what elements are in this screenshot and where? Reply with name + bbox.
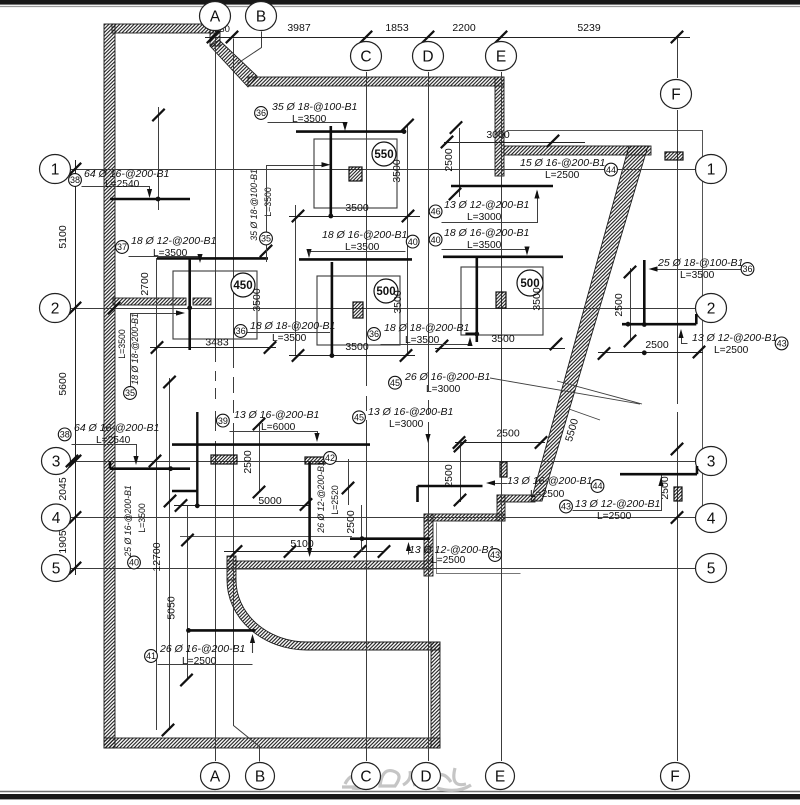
- column on grid F row 1: [665, 152, 683, 160]
- wall curved end cap: [227, 556, 236, 580]
- svg-text:12700: 12700: [151, 542, 163, 571]
- svg-text:25 Ø 18-@100-B1: 25 Ø 18-@100-B1: [657, 257, 743, 269]
- dim 3500 footing C1: [289, 216, 420, 218]
- grid circle 3 left: [42, 448, 71, 475]
- callout 36 top leader: [268, 123, 346, 128]
- dim 3000 near E row1: [444, 142, 585, 144]
- grid circle C top: [351, 42, 382, 71]
- rebar 42 vertical: [308, 462, 311, 552]
- svg-text:L=2540: L=2540: [96, 435, 131, 446]
- tick on grid F near row 3: [671, 443, 683, 455]
- svg-text:18 Ø 18-@200-B1: 18 Ø 18-@200-B1: [250, 320, 335, 332]
- svg-text:L=3500: L=3500: [467, 240, 502, 251]
- svg-text:2500: 2500: [345, 510, 357, 534]
- svg-text:L=3500: L=3500: [263, 187, 273, 217]
- svg-text:L=2500: L=2500: [597, 511, 632, 522]
- rebar 36b vertical footing C2: [331, 262, 334, 357]
- callout 38b leader: [72, 445, 137, 462]
- svg-text:1: 1: [707, 162, 716, 179]
- grid centerline gaps: [214, 362, 216, 371]
- grid line C vertical: [366, 72, 368, 761]
- tick on grid F row 4: [671, 511, 683, 523]
- column on grid F rows 3-4: [674, 487, 682, 501]
- grid circle 3 right: [696, 447, 727, 476]
- callout 35b leader: [131, 314, 182, 387]
- svg-text:L=2500: L=2500: [714, 345, 749, 356]
- wall bottom: [104, 738, 440, 748]
- footing E2 column: [496, 292, 506, 308]
- svg-text:4: 4: [52, 510, 61, 527]
- grid circle A top: [200, 2, 231, 31]
- slab boundary thin line near step wall: [437, 523, 521, 574]
- dim 3500 footing E2: [435, 348, 565, 350]
- svg-text:L=3500: L=3500: [272, 333, 307, 344]
- svg-text:3987: 3987: [287, 22, 311, 34]
- svg-text:2500: 2500: [613, 293, 625, 317]
- rebar 39 horizontal long row3: [172, 443, 370, 446]
- svg-text:L=3500: L=3500: [345, 242, 380, 253]
- grid line 1 horizontal: [70, 169, 696, 171]
- tick grid3 x155: [149, 455, 161, 467]
- svg-text:1905: 1905: [57, 530, 69, 554]
- svg-text:26 Ø 16-@200-B1: 26 Ø 16-@200-B1: [404, 371, 490, 383]
- svg-text:5050: 5050: [166, 596, 178, 620]
- svg-text:35: 35: [261, 234, 271, 244]
- extension line footing dims left: [295, 205, 297, 356]
- svg-text:3000: 3000: [486, 129, 510, 141]
- watermark: [342, 768, 471, 790]
- grid circle 1 left: [40, 155, 71, 184]
- svg-text:F: F: [671, 87, 680, 104]
- tick on curve dim: [260, 245, 272, 257]
- svg-text:C: C: [360, 49, 371, 66]
- grid circle 4 left: [42, 504, 71, 531]
- svg-text:5: 5: [52, 561, 61, 578]
- svg-text:2045: 2045: [57, 477, 69, 501]
- svg-text:L=3000: L=3000: [467, 212, 502, 223]
- svg-text:26 Ø 16-@200-B1: 26 Ø 16-@200-B1: [159, 643, 245, 655]
- rebar 40a horizontal: [299, 258, 412, 261]
- footing E2 outline: [461, 267, 543, 335]
- footing label 500 center: [374, 279, 398, 303]
- svg-text:2500: 2500: [645, 339, 669, 351]
- slab boundary thin line top right: [507, 131, 703, 519]
- footing C1 column: [349, 167, 362, 181]
- svg-text:2500: 2500: [443, 464, 455, 488]
- rebar 38a horizontal row1: [110, 198, 190, 201]
- svg-text:L=3500: L=3500: [137, 503, 147, 533]
- column row 3 mid: [305, 457, 325, 464]
- vertical dim 2500 D-E row1: [459, 128, 461, 197]
- svg-text:39: 39: [218, 416, 228, 426]
- svg-text:3: 3: [52, 454, 61, 471]
- svg-text:2: 2: [707, 301, 716, 318]
- svg-text:B: B: [255, 769, 265, 786]
- callout 39 leader: [230, 432, 318, 439]
- svg-text:L=2500: L=2500: [431, 555, 466, 566]
- svg-text:F: F: [670, 769, 679, 786]
- dim 2500 rows 3 E area: [455, 442, 545, 444]
- page top border bar: [0, 0, 800, 5]
- svg-text:38: 38: [70, 175, 80, 185]
- svg-text:3: 3: [707, 454, 716, 471]
- rebar 40c short horizontal: [172, 490, 197, 493]
- callout 45a: [490, 378, 640, 404]
- grid line A vertical: [215, 31, 217, 761]
- svg-text:44: 44: [592, 481, 602, 491]
- wall left outer: [104, 24, 115, 748]
- wall horizontal E to diagonal: [504, 146, 651, 155]
- rebar 37 horizontal: [157, 257, 268, 260]
- svg-text:13 Ø 16-@200-B1: 13 Ø 16-@200-B1: [368, 406, 453, 418]
- svg-text:L=3500: L=3500: [117, 329, 127, 359]
- svg-text:B: B: [256, 9, 266, 26]
- grid line E vertical: [501, 72, 503, 761]
- callout 44b leader: [489, 483, 507, 485]
- svg-text:5600: 5600: [57, 372, 69, 396]
- svg-text:L=2500: L=2500: [545, 170, 580, 181]
- svg-text:46: 46: [431, 207, 441, 217]
- rebar E rows3-4 horizontal: [418, 485, 483, 488]
- svg-text:18 Ø 18-@200-B1: 18 Ø 18-@200-B1: [130, 313, 140, 385]
- svg-text:L=2540: L=2540: [105, 179, 140, 190]
- grid circle C bottom: [352, 763, 381, 790]
- vertical line x197 rebar: [196, 412, 198, 506]
- svg-text:L=3500: L=3500: [405, 335, 440, 346]
- svg-text:18 Ø 12-@200-B1: 18 Ø 12-@200-B1: [131, 235, 216, 247]
- grid circle 1 right: [696, 155, 727, 184]
- rebar 43a horizontal right: [622, 323, 696, 326]
- grid circle E top: [486, 42, 517, 71]
- svg-text:36: 36: [369, 329, 379, 339]
- wall upper horizontal band B to E: [248, 77, 504, 86]
- wall step vertical at D: [424, 514, 433, 576]
- svg-text:L=2520: L=2520: [330, 485, 340, 515]
- wall corner at grid A: [210, 30, 220, 46]
- svg-text:L=3000: L=3000: [389, 419, 424, 430]
- slab edge thin line left of step: [180, 536, 352, 538]
- svg-text:E: E: [495, 769, 505, 786]
- vertical dim line left-bottom 12700: [169, 378, 171, 730]
- grid circle B bottom: [246, 763, 275, 790]
- left dimension line: [75, 160, 77, 575]
- footing C2 outline: [317, 276, 400, 345]
- rebar 40b horizontal: [443, 255, 563, 258]
- wall step vertical small: [497, 495, 505, 521]
- wall top-left: [112, 24, 220, 33]
- svg-text:3500: 3500: [251, 288, 263, 312]
- svg-text:3500: 3500: [491, 333, 515, 345]
- vertical dim 2700 left: [156, 258, 158, 730]
- svg-text:45: 45: [354, 413, 364, 423]
- svg-text:42: 42: [325, 453, 335, 463]
- svg-text:36: 36: [236, 326, 246, 336]
- vertical dim line 5050: [187, 506, 189, 680]
- svg-text:13 Ø 12-@200-B1: 13 Ø 12-@200-B1: [692, 332, 777, 344]
- grid line 2 horizontal: [70, 308, 696, 310]
- svg-text:38: 38: [60, 430, 70, 440]
- footing B2 outline: [173, 271, 257, 339]
- svg-text:37: 37: [117, 242, 127, 252]
- svg-text:44: 44: [606, 165, 616, 175]
- callout 45b leader: [428, 430, 430, 440]
- svg-text:64 Ø 16-@200-B1: 64 Ø 16-@200-B1: [74, 422, 159, 434]
- svg-text:2500: 2500: [242, 450, 254, 474]
- svg-text:2200: 2200: [452, 22, 476, 34]
- svg-text:C: C: [360, 769, 371, 786]
- rebar 46/44 horizontal right: [451, 185, 553, 188]
- grid circle A bottom: [201, 763, 230, 790]
- svg-text:36: 36: [742, 264, 752, 274]
- svg-text:43: 43: [777, 339, 787, 349]
- callout 37 leader: [129, 257, 201, 260]
- svg-text:1: 1: [51, 162, 60, 179]
- svg-text:A: A: [210, 9, 221, 26]
- svg-text:3500: 3500: [392, 290, 404, 314]
- grid circle 5 right: [696, 554, 727, 583]
- wall interior long band row 5: [227, 561, 433, 569]
- grid circle F bottom: [661, 763, 690, 790]
- svg-text:43: 43: [561, 502, 571, 512]
- rebar 38b horizontal row3 left: [110, 467, 190, 470]
- svg-text:13 Ø 12-@200-B1: 13 Ø 12-@200-B1: [575, 498, 660, 510]
- svg-text:25 Ø 16-@200-B1: 25 Ø 16-@200-B1: [123, 485, 133, 558]
- grid line 5 horizontal: [70, 568, 696, 570]
- grid circle 4 right: [696, 504, 727, 533]
- svg-text:5: 5: [707, 561, 716, 578]
- rebar 44b horizontal rows3-4 right: [620, 473, 697, 476]
- callout 43b leader: [573, 481, 662, 511]
- svg-text:35: 35: [125, 388, 135, 398]
- grid circle 2 left: [40, 294, 71, 323]
- grid circle D bottom: [412, 763, 441, 790]
- svg-text:2700: 2700: [139, 272, 151, 296]
- dim 2500 below grid2 right: [598, 352, 703, 354]
- dim 5000 row 3-4: [174, 505, 310, 507]
- svg-text:18 Ø 16-@200-B1: 18 Ø 16-@200-B1: [444, 227, 529, 239]
- svg-text:35 Ø 18-@100-B1: 35 Ø 18-@100-B1: [249, 169, 259, 241]
- svg-text:15 Ø 16-@200-B1: 15 Ø 16-@200-B1: [520, 157, 605, 169]
- svg-text:A: A: [210, 769, 221, 786]
- grid line B vertical with kinks: [238, 32, 262, 64]
- rebar 41 horizontal bottom: [187, 629, 256, 632]
- callout 36a leader: [247, 332, 330, 334]
- grid line D vertical: [428, 72, 430, 761]
- svg-text:L=2500: L=2500: [530, 489, 565, 500]
- rebar 43c horizontal near D row4-5: [350, 537, 430, 540]
- tick on grid 3 left: [66, 455, 78, 467]
- svg-text:550: 550: [374, 149, 393, 161]
- dim 3483 footing B2: [150, 347, 276, 349]
- wall vertical at grid E rows 0-1: [495, 77, 504, 176]
- svg-text:3483: 3483: [205, 337, 229, 349]
- svg-text:13 Ø 12-@200-B1: 13 Ø 12-@200-B1: [444, 199, 529, 211]
- page bottom border bar: [0, 791, 800, 793]
- callout 36b leader: [381, 341, 471, 345]
- svg-text:L=6000: L=6000: [261, 422, 296, 433]
- svg-text:18 Ø 16-@200-B1: 18 Ø 16-@200-B1: [322, 229, 407, 241]
- svg-text:450: 450: [233, 280, 252, 292]
- vertical dim 2500 E rows3-4: [460, 443, 462, 503]
- grid line F vertical: [677, 37, 679, 78]
- svg-text:L=2500: L=2500: [182, 656, 217, 667]
- wall diagonal right boundary: [531, 146, 648, 501]
- callout 38 top-left leader: [82, 187, 150, 195]
- grid circle F top: [661, 80, 692, 109]
- svg-text:4: 4: [707, 511, 716, 528]
- diagonal wall dim 5500: [557, 381, 642, 404]
- wall bottom-right vertical: [431, 642, 440, 748]
- footing C1 outline: [314, 139, 397, 208]
- svg-text:40: 40: [408, 237, 418, 247]
- svg-text:43: 43: [490, 550, 500, 560]
- rebar 36d vertical right: [643, 260, 646, 325]
- svg-text:40: 40: [129, 558, 139, 568]
- svg-text:45: 45: [390, 378, 400, 388]
- grid circle E bottom: [486, 763, 515, 790]
- svg-text:L=3500: L=3500: [153, 248, 188, 259]
- vertical line x348 rows3-4: [348, 459, 350, 505]
- callout 46 leader: [442, 192, 538, 223]
- svg-text:5000: 5000: [258, 495, 282, 507]
- rebar 35a vertical через footing C1: [329, 126, 332, 218]
- grid line 3 horizontal: [70, 461, 696, 463]
- grid circle B top: [246, 2, 277, 31]
- wall step top near D-E: [497, 495, 535, 502]
- rebar 36a vertical footing B2: [188, 258, 191, 350]
- svg-text:3500: 3500: [391, 159, 403, 183]
- grid circle 5 left: [42, 555, 71, 582]
- top dimension line: [205, 37, 690, 39]
- svg-text:3500: 3500: [345, 202, 369, 214]
- callout 43a leader: [682, 333, 688, 344]
- svg-text:3500: 3500: [345, 341, 369, 353]
- svg-text:L=3000: L=3000: [426, 384, 461, 395]
- column on grid E rows 3-4: [500, 462, 507, 477]
- svg-text:40: 40: [431, 235, 441, 245]
- vertical dim 2500 near D row4: [361, 505, 363, 552]
- wall interior stub row 2 right part: [193, 298, 211, 305]
- svg-text:36: 36: [256, 108, 266, 118]
- column on grid B row 3: [211, 455, 237, 464]
- vertical dim 2500 right of diagonal: [630, 268, 632, 341]
- vertical dim 2500 at B-C row2: [259, 424, 261, 492]
- vertical dim 2500 at F rows3-4: [661, 474, 663, 506]
- footing C2 column: [353, 302, 363, 318]
- footing label 550: [372, 142, 396, 166]
- callout 40b leader: [442, 250, 528, 253]
- grid line 4 horizontal: [70, 517, 696, 519]
- svg-text:2: 2: [51, 301, 60, 318]
- svg-text:5239: 5239: [577, 22, 601, 34]
- callout 36d right leader: [652, 269, 742, 271]
- footing label 500 right: [517, 270, 543, 296]
- svg-text:1853: 1853: [385, 22, 409, 34]
- svg-text:5100: 5100: [57, 225, 69, 249]
- callout 40a leader: [310, 251, 406, 253]
- svg-text:D: D: [420, 769, 431, 786]
- svg-text:41: 41: [146, 651, 156, 661]
- svg-text:35 Ø 18-@100-B1: 35 Ø 18-@100-B1: [272, 101, 357, 113]
- dim 3500 footing C2: [289, 355, 415, 357]
- grid circle 2 right: [696, 294, 727, 323]
- extension line footing dims right: [407, 124, 409, 356]
- rebar 36c vertical footing E2: [475, 256, 478, 342]
- wall curved quarter-arc with bottom run: [227, 580, 440, 650]
- svg-text:D: D: [422, 49, 433, 66]
- tick grid2 wall crossing: [108, 302, 120, 314]
- svg-text:18 Ø 18-@200-B1: 18 Ø 18-@200-B1: [384, 322, 469, 334]
- grid circle D top: [413, 42, 444, 71]
- extension line top-left for 2540: [158, 107, 160, 210]
- svg-text:L=3500: L=3500: [292, 114, 327, 125]
- svg-text:L=3500: L=3500: [680, 270, 715, 281]
- svg-text:3500: 3500: [531, 287, 543, 311]
- callout 41 leader: [158, 664, 253, 666]
- svg-text:2500: 2500: [443, 148, 455, 172]
- svg-text:13 Ø 16-@200-B1: 13 Ø 16-@200-B1: [507, 475, 592, 487]
- callout 43c leader: [408, 546, 410, 555]
- svg-text:E: E: [496, 49, 506, 66]
- svg-text:13 Ø 16-@200-B1: 13 Ø 16-@200-B1: [234, 409, 319, 421]
- rebar 36top horizontal: [296, 130, 406, 133]
- dim 5100 row 4-5: [224, 551, 384, 553]
- footing label 450: [231, 273, 255, 297]
- svg-text:2500: 2500: [496, 428, 520, 440]
- wall interior stub row 2 left: [113, 298, 186, 305]
- wall step horizontal: [424, 514, 505, 521]
- svg-text:26 Ø 12-@200-B1: 26 Ø 12-@200-B1: [316, 461, 326, 534]
